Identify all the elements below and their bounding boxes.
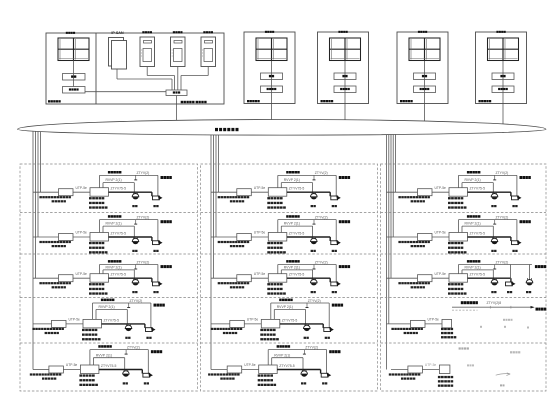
svg-text:ZTYV(2): ZTYV(2) [496,215,509,219]
svg-text:UTP-5e: UTP-5e [69,318,81,322]
svg-text:RVVP 2(1): RVVP 2(1) [284,222,300,226]
svg-text:UTP-5e: UTP-5e [254,231,266,235]
svg-text:UTP-5e: UTP-5e [66,363,78,367]
svg-text:RVVP 2(1): RVVP 2(1) [106,178,122,182]
svg-text:ZTYV75-5: ZTYV75-5 [289,273,305,277]
svg-text:UTP-5e: UTP-5e [244,363,256,367]
svg-text:ZTYV(2): ZTYV(2) [137,215,150,219]
svg-text:UTP-5e: UTP-5e [76,231,88,235]
svg-text:ZTYV(2): ZTYV(2) [308,299,321,303]
svg-text:UTP-5e: UTP-5e [435,231,447,235]
svg-text:ZTYV(2): ZTYV(2) [137,171,150,175]
svg-text:ZTYV75-5: ZTYV75-5 [470,187,486,191]
svg-text:ZTYV75-5: ZTYV75-5 [282,318,298,322]
svg-text:ZTYV75-5: ZTYV75-5 [104,318,120,322]
svg-text:RVVP 2(1): RVVP 2(1) [106,266,122,270]
svg-text:ZTYV75-5: ZTYV75-5 [111,231,127,235]
svg-text:ZTYV75-5: ZTYV75-5 [279,364,295,368]
svg-text:ZTYV(2): ZTYV(2) [315,260,328,264]
svg-text:ZTYV75-5: ZTYV75-5 [289,187,305,191]
svg-text:ZTYV75-5: ZTYV75-5 [289,231,305,235]
svg-text:RVVP 2(1): RVVP 2(1) [284,266,300,270]
svg-text:ZTYV(2)8: ZTYV(2)8 [487,301,502,305]
svg-text:UTP-5e: UTP-5e [435,186,447,190]
svg-text:UTP-5e: UTP-5e [254,272,266,276]
svg-text:UTP-5e: UTP-5e [76,186,88,190]
svg-text:UTP-5e: UTP-5e [428,318,440,322]
svg-text:UTP-5e: UTP-5e [425,363,437,367]
svg-text:ZTYV75-5: ZTYV75-5 [470,273,486,277]
svg-text:ZTYV(2): ZTYV(2) [315,215,328,219]
svg-text:ZTYV75-5: ZTYV75-5 [111,273,127,277]
svg-text:UTP-5e: UTP-5e [254,186,266,190]
svg-text:RVVP 2(1): RVVP 2(1) [465,178,481,182]
svg-text:ZTYV(2): ZTYV(2) [496,171,509,175]
svg-text:UTP-5e: UTP-5e [247,318,259,322]
svg-text:ZTYV75-5: ZTYV75-5 [101,364,117,368]
svg-text:IP-SAN: IP-SAN [111,31,124,35]
svg-text:RVVP 2(1): RVVP 2(1) [106,222,122,226]
svg-text:RVVP 2(1): RVVP 2(1) [99,305,115,309]
svg-text:RVVP 2(1): RVVP 2(1) [277,305,293,309]
svg-text:RVVP 2(1): RVVP 2(1) [96,353,112,357]
svg-text:ZTYV(2): ZTYV(2) [130,299,143,303]
svg-text:RVVP 2(1): RVVP 2(1) [274,353,290,357]
svg-text:RVVP 2(1): RVVP 2(1) [465,222,481,226]
svg-text:UTP-5e: UTP-5e [435,272,447,276]
svg-text:ZTYV(2): ZTYV(2) [315,171,328,175]
svg-text:ZTYV(2): ZTYV(2) [127,345,140,349]
svg-text:ZTYV75-5: ZTYV75-5 [470,231,486,235]
svg-text:ZTYV(2): ZTYV(2) [137,260,150,264]
svg-text:RVVP 2(1): RVVP 2(1) [284,178,300,182]
svg-text:ZTYV(2): ZTYV(2) [496,260,509,264]
svg-text:UTP-5e: UTP-5e [76,272,88,276]
svg-text:ZTYV75-5: ZTYV75-5 [111,187,127,191]
svg-text:ZTYV(2): ZTYV(2) [305,345,318,349]
svg-text:RVVP 2(1): RVVP 2(1) [465,266,481,270]
